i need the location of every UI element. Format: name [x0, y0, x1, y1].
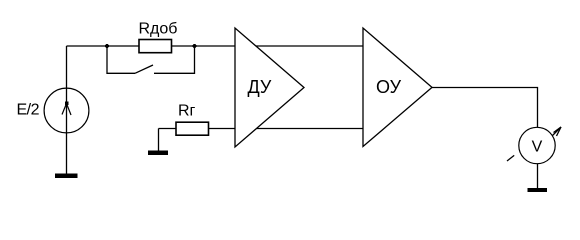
svg-text:ОУ: ОУ	[376, 77, 402, 97]
svg-text:Rдоб: Rдоб	[139, 21, 178, 38]
svg-text:E/2: E/2	[17, 102, 40, 119]
svg-text:V: V	[532, 139, 543, 156]
svg-text:ДУ: ДУ	[248, 77, 272, 97]
svg-text:Rг: Rг	[178, 103, 196, 120]
